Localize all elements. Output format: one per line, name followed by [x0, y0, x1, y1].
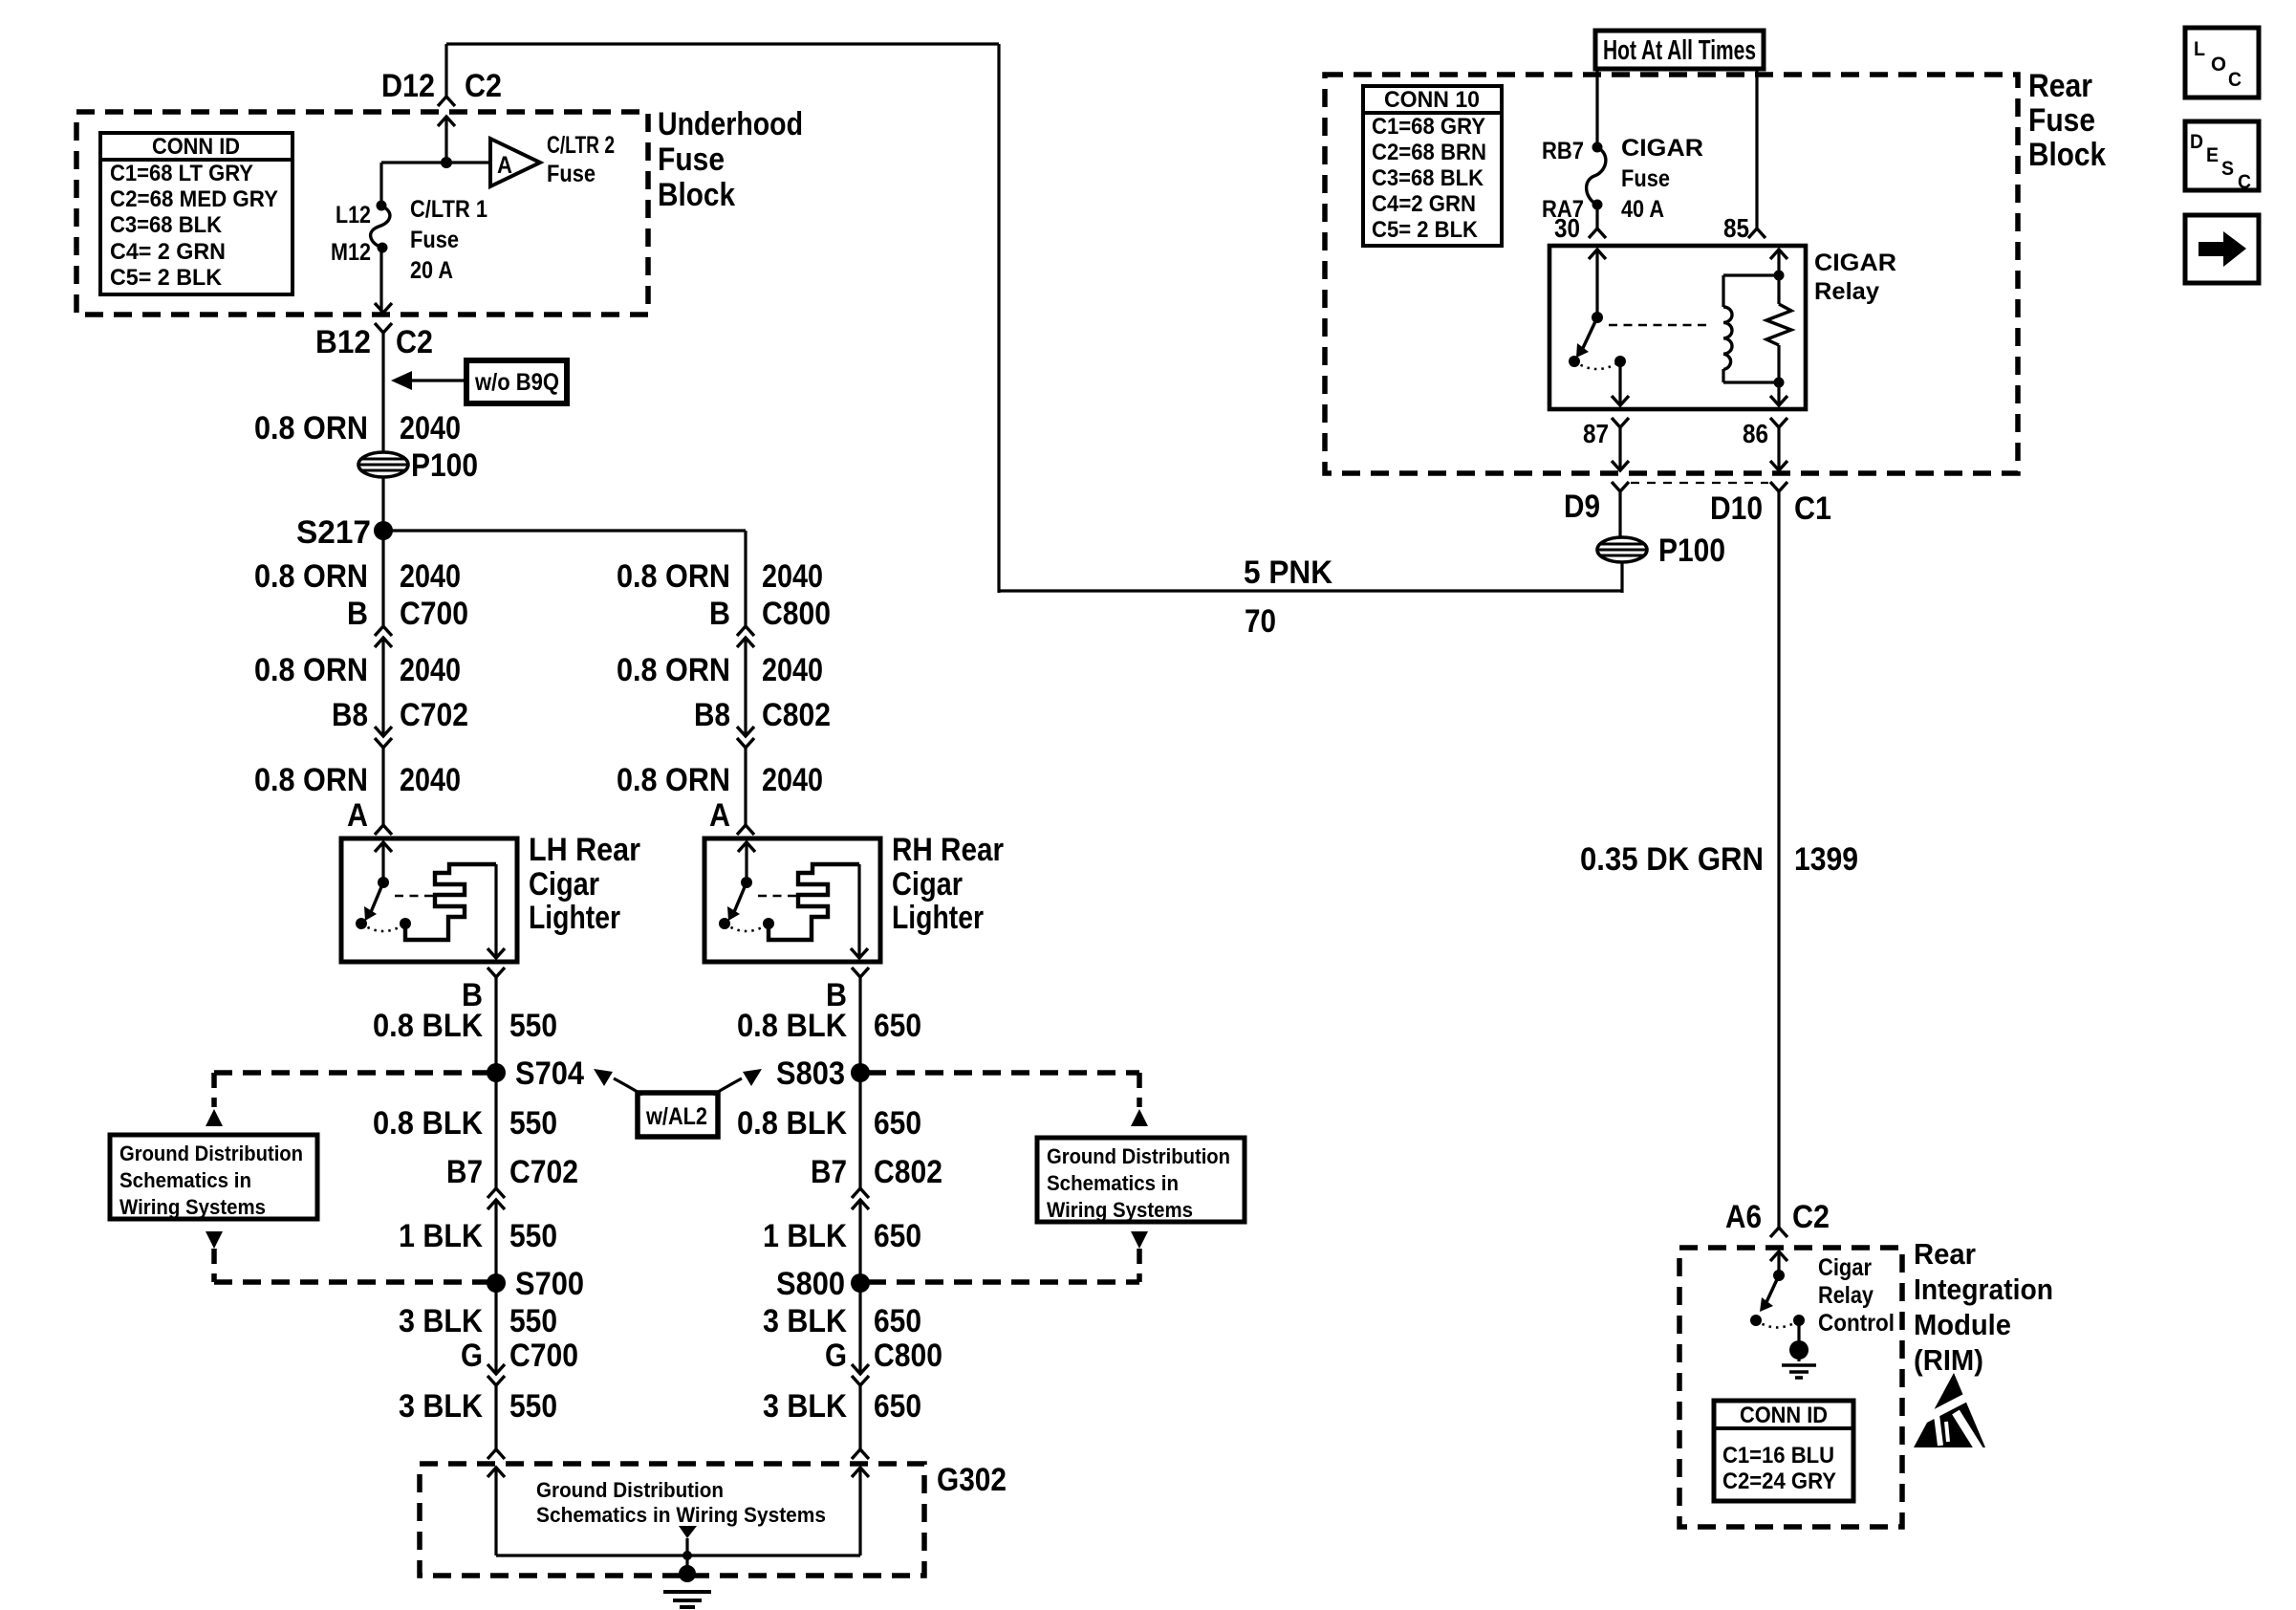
- relay coil top lead: [1723, 273, 1779, 276]
- svg-text:3 BLK: 3 BLK: [763, 1388, 847, 1425]
- svg-text:B12: B12: [315, 324, 371, 360]
- cigar lighter RH box: [704, 838, 880, 962]
- ground symbol G302: [685, 1556, 688, 1570]
- connector dashed link D9 D10: [1631, 482, 1768, 484]
- cigar lighter LH heater element: [405, 864, 496, 940]
- wire S700 to connector G: [494, 1283, 497, 1374]
- fuse C/LTR 1 terminal L12 dot: [377, 201, 387, 211]
- wire P100 to S217: [381, 477, 384, 531]
- connector pin A chevron LH: [375, 825, 392, 835]
- callout w/o B9Q box: [466, 360, 567, 403]
- wire inside G302 S800: [858, 1468, 861, 1556]
- fuse CIGAR element: [1587, 147, 1606, 205]
- wire 5 PNK riser vertical: [997, 44, 1000, 593]
- svg-text:B: B: [709, 596, 730, 632]
- cigar lighter LH element contact dot: [400, 918, 411, 929]
- legend box DESC: [2185, 121, 2259, 190]
- svg-text:P100: P100: [1658, 533, 1725, 569]
- svg-text:Fuse: Fuse: [2028, 102, 2095, 139]
- svg-text:C1=68 GRY: C1=68 GRY: [1372, 114, 1485, 140]
- svg-text:C3=68 BLK: C3=68 BLK: [1372, 165, 1484, 191]
- relay pin 86 arrow at bottom: [1770, 396, 1787, 405]
- svg-text:85: 85: [1723, 213, 1749, 243]
- ground distribution dashed right edge: [1137, 1073, 1142, 1107]
- svg-text:650: 650: [874, 1303, 921, 1339]
- svg-text:w/AL2: w/AL2: [645, 1103, 707, 1130]
- svg-text:1 BLK: 1 BLK: [763, 1218, 847, 1254]
- relay junction dot top: [1774, 271, 1785, 281]
- svg-text:Ground Distribution: Ground Distribution: [536, 1478, 724, 1502]
- relay resistor zigzag: [1766, 304, 1791, 345]
- svg-text:C800: C800: [874, 1338, 942, 1374]
- cigar lighter RH switch dashed link: [758, 895, 797, 898]
- splice S704 dot: [487, 1063, 506, 1082]
- wire RH between C800 and C802: [744, 638, 747, 736]
- wire S217 branch horizontal: [383, 529, 746, 532]
- svg-text:Schematics in: Schematics in: [119, 1168, 251, 1192]
- svg-text:0.35 DK GRN: 0.35 DK GRN: [1580, 841, 1764, 878]
- conn id table RIM: [1714, 1401, 1853, 1501]
- svg-text:C/LTR 1: C/LTR 1: [410, 196, 487, 223]
- connector D10 arrow at block edge: [1770, 461, 1787, 470]
- cigar lighter RH element contact dot: [763, 918, 774, 929]
- fuse C/LTR 2 triangle symbol A: [490, 139, 540, 186]
- callout w/AL2 box: [638, 1093, 718, 1137]
- svg-text:0.8 ORN: 0.8 ORN: [617, 652, 730, 688]
- connector C2 pin D12 arrow inside box: [438, 117, 455, 126]
- note box ground distribution right: [1037, 1138, 1245, 1222]
- svg-text:L12: L12: [336, 202, 371, 228]
- svg-text:S704: S704: [515, 1055, 584, 1092]
- svg-text:CIGAR: CIGAR: [1621, 135, 1703, 162]
- fuse C/LTR 1 terminal M12 dot: [378, 243, 388, 253]
- splice S217 dot: [374, 521, 393, 540]
- svg-text:C2=68 BRN: C2=68 BRN: [1372, 140, 1486, 165]
- relay actuation dashed line: [1609, 324, 1708, 327]
- svg-text:C: C: [2238, 171, 2251, 193]
- RIM switch arm: [1766, 1275, 1779, 1302]
- wire 1399 from D10 to RIM: [1777, 491, 1780, 1228]
- connector pin B chevron below lighter S803: [852, 968, 869, 977]
- svg-text:Fuse: Fuse: [547, 161, 596, 187]
- svg-text:B8: B8: [332, 697, 368, 733]
- wire pin 86 to block edge: [1777, 427, 1780, 470]
- svg-text:70: 70: [1245, 603, 1276, 640]
- underhood fuse block dashed box: [76, 112, 648, 315]
- ground distribution dashed top right: [868, 1070, 1139, 1076]
- connector C2 pin A6 arrow inside RIM: [1770, 1251, 1787, 1261]
- connector C700 pin G chevron pair: [487, 1364, 505, 1374]
- svg-text:Ground Distribution: Ground Distribution: [1047, 1144, 1230, 1168]
- svg-text:C2=68 MED GRY: C2=68 MED GRY: [110, 186, 278, 212]
- ground distribution dashed bottom left: [214, 1279, 488, 1285]
- wire G to ground G302: [494, 1385, 497, 1449]
- G302 internal wire right elbow: [687, 1554, 860, 1556]
- svg-text:Cigar: Cigar: [529, 866, 599, 903]
- wire from connector to fuse node: [444, 117, 447, 163]
- cigar lighter RH switch arm: [734, 882, 747, 912]
- cigar lighter RH contact dotted arc: [725, 924, 769, 931]
- svg-text:86: 86: [1743, 419, 1768, 448]
- svg-text:Wiring Systems: Wiring Systems: [1047, 1198, 1193, 1222]
- svg-text:A: A: [497, 152, 512, 179]
- cigar lighter LH contact dotted arc: [361, 924, 405, 931]
- RIM switch contact dot: [1750, 1315, 1762, 1326]
- svg-text:D9: D9: [1564, 489, 1600, 525]
- svg-text:C: C: [2228, 69, 2242, 91]
- cigar lighter LH switch contact dot: [356, 918, 367, 929]
- svg-text:1399: 1399: [1794, 841, 1858, 878]
- svg-text:A6: A6: [1725, 1199, 1762, 1235]
- svg-text:C700: C700: [400, 596, 468, 632]
- svg-text:Fuse: Fuse: [658, 141, 725, 178]
- connector C2 pin B12 arrow at box bottom: [375, 303, 392, 313]
- legend box LOC: [2185, 28, 2259, 98]
- arrow into G302 S800: [852, 1468, 869, 1477]
- fuse C/LTR 1 element: [371, 206, 390, 248]
- svg-text:Cigar: Cigar: [1818, 1254, 1872, 1281]
- svg-text:Relay: Relay: [1814, 278, 1879, 305]
- RIM switch pivot dot: [1773, 1270, 1785, 1281]
- wire S800 to connector G: [858, 1283, 861, 1374]
- svg-text:Cigar: Cigar: [892, 866, 963, 903]
- svg-text:C2: C2: [1792, 1199, 1830, 1235]
- RIM switch wire: [1777, 1251, 1780, 1275]
- svg-text:0.8 BLK: 0.8 BLK: [373, 1105, 483, 1142]
- svg-text:0.8 ORN: 0.8 ORN: [254, 762, 368, 798]
- svg-text:Schematics in Wiring Systems: Schematics in Wiring Systems: [536, 1503, 826, 1527]
- relay CIGAR box: [1549, 246, 1806, 409]
- wire P100 to 5 PNK elbow: [1620, 562, 1623, 593]
- wire S803 to connector B7: [858, 1073, 861, 1188]
- svg-text:B7: B7: [446, 1154, 483, 1190]
- relay resistor bottom lead: [1777, 345, 1780, 396]
- wire inside G302 S700: [494, 1468, 497, 1556]
- connector D10 chevron: [1770, 482, 1787, 491]
- svg-text:C802: C802: [874, 1154, 942, 1190]
- svg-text:C702: C702: [509, 1154, 578, 1190]
- svg-text:C1=16 BLU: C1=16 BLU: [1722, 1443, 1834, 1469]
- wire D9 to P100 right: [1618, 491, 1621, 537]
- wire M12 down to box edge: [379, 248, 382, 313]
- svg-text:2040: 2040: [400, 558, 461, 595]
- svg-text:D12: D12: [381, 68, 435, 104]
- wire fuse feed horizontal: [381, 161, 490, 163]
- relay coil: [1722, 275, 1724, 307]
- rear integration module dashed box: [1679, 1248, 1902, 1527]
- svg-text:2040: 2040: [400, 410, 461, 446]
- svg-text:CONN ID: CONN ID: [1740, 1403, 1828, 1428]
- svg-text:S803: S803: [776, 1055, 845, 1092]
- wire RA7 to relay pin 30: [1595, 205, 1598, 228]
- RIM contact dotted arc: [1756, 1320, 1799, 1328]
- svg-text:Module: Module: [1914, 1308, 2011, 1341]
- connector pin B chevron below lighter S704: [487, 968, 505, 977]
- reference triangle up right: [1131, 1109, 1148, 1126]
- svg-text:550: 550: [509, 1105, 557, 1142]
- splice S800 dot: [851, 1273, 870, 1293]
- svg-text:2040: 2040: [762, 762, 823, 798]
- arrow into G302 S700: [487, 1468, 505, 1477]
- ground distribution dashed top left: [214, 1070, 488, 1076]
- svg-text:0.8 ORN: 0.8 ORN: [254, 558, 368, 595]
- svg-text:5 PNK: 5 PNK: [1244, 555, 1332, 591]
- svg-text:B: B: [347, 596, 368, 632]
- G302 junction dot: [682, 1551, 692, 1560]
- svg-text:Underhood: Underhood: [658, 106, 803, 142]
- cigar lighter RH heater element: [769, 864, 859, 940]
- connector C2 pin D12 chevron: [438, 97, 455, 106]
- svg-text:550: 550: [509, 1008, 557, 1044]
- callout arrow to S704: [614, 1078, 642, 1095]
- relay resistor top lead: [1777, 250, 1780, 304]
- relay pin 86 chevron below box: [1770, 418, 1787, 427]
- connector D9 arrow at block edge: [1612, 461, 1629, 470]
- svg-text:C/LTR 2: C/LTR 2: [547, 132, 615, 159]
- splice S700 dot: [487, 1273, 506, 1293]
- connector C802 pin B7 chevron pair: [852, 1188, 869, 1198]
- svg-text:0.8 BLK: 0.8 BLK: [737, 1105, 847, 1142]
- svg-text:B7: B7: [811, 1154, 847, 1190]
- wire B7 to splice S700: [494, 1200, 497, 1283]
- cigar lighter RH switch contact dot: [719, 918, 730, 929]
- svg-text:0.8 BLK: 0.8 BLK: [373, 1008, 483, 1044]
- wire LH between C700 and C702: [381, 638, 384, 736]
- svg-text:C1: C1: [1794, 490, 1831, 527]
- svg-text:C5= 2 BLK: C5= 2 BLK: [1372, 217, 1479, 243]
- connector D9 chevron: [1612, 482, 1629, 491]
- svg-text:2040: 2040: [400, 762, 461, 798]
- svg-text:C2: C2: [396, 324, 433, 360]
- node junction dot at fuse feed: [441, 157, 452, 168]
- svg-text:LH Rear: LH Rear: [529, 832, 640, 868]
- svg-text:S800: S800: [776, 1266, 845, 1302]
- relay switch NO contact dot: [1569, 356, 1580, 367]
- callout arrow to wire: [411, 379, 466, 381]
- svg-text:3 BLK: 3 BLK: [399, 1388, 483, 1425]
- cigar lighter LH pin B internal wire: [494, 864, 497, 958]
- G302 internal wire left elbow: [496, 1554, 687, 1556]
- relay pin 87 wire: [1618, 361, 1621, 405]
- connector C702 pin B7 chevron pair: [487, 1188, 505, 1198]
- svg-text:Fuse: Fuse: [1621, 165, 1670, 192]
- reference triangle down left: [206, 1231, 223, 1249]
- svg-text:D10: D10: [1710, 490, 1763, 527]
- fuse CIGAR terminal RA7 dot: [1592, 200, 1603, 210]
- svg-text:Wiring Systems: Wiring Systems: [119, 1195, 266, 1219]
- svg-text:S700: S700: [515, 1266, 584, 1302]
- wire S704 to connector B7: [494, 1073, 497, 1188]
- ground symbol RIM: [1789, 1340, 1809, 1360]
- fuse CIGAR terminal RB7 dot: [1592, 142, 1603, 153]
- svg-text:C3=68 BLK: C3=68 BLK: [110, 212, 223, 238]
- svg-text:Control: Control: [1818, 1310, 1895, 1337]
- cigar lighter LH switch arm: [371, 882, 383, 912]
- svg-text:RH Rear: RH Rear: [892, 832, 1004, 868]
- relay pin 30 chevron: [1589, 228, 1606, 238]
- wire right branch drop: [744, 531, 747, 626]
- wire LH to cigar lighter pin A: [381, 748, 384, 825]
- svg-text:w/o B9Q: w/o B9Q: [474, 369, 559, 396]
- cigar lighter LH box: [341, 838, 517, 962]
- wire lighter B to splice S704: [494, 977, 497, 1073]
- wire hot feed to relay pin 85: [1755, 69, 1758, 228]
- svg-text:C4=2 GRN: C4=2 GRN: [1372, 191, 1476, 217]
- svg-text:Block: Block: [658, 177, 735, 213]
- svg-text:C702: C702: [400, 697, 468, 733]
- ground distribution dashed left edge: [211, 1073, 217, 1107]
- callout arrow to S803: [713, 1078, 742, 1095]
- RIM output contact dot: [1793, 1315, 1805, 1326]
- RIM ground wire: [1797, 1320, 1800, 1342]
- relay switch arm: [1583, 317, 1597, 348]
- svg-text:Lighter: Lighter: [529, 900, 620, 936]
- cigar lighter LH switch pivot dot: [378, 877, 389, 888]
- relay pin 85 arrow inside: [1770, 250, 1787, 259]
- wire down to C/LTR 1 fuse: [379, 163, 382, 206]
- svg-text:30: 30: [1554, 213, 1580, 243]
- svg-text:C700: C700: [509, 1338, 578, 1374]
- svg-text:Schematics in: Schematics in: [1047, 1171, 1179, 1195]
- connector C2 pin B12 chevron below box: [375, 323, 392, 333]
- svg-text:C4= 2 GRN: C4= 2 GRN: [110, 239, 226, 265]
- connector pin A chevron RH: [737, 825, 754, 835]
- svg-text:2040: 2040: [400, 652, 461, 688]
- svg-text:Relay: Relay: [1818, 1282, 1874, 1309]
- connector C2 pin A6 chevron: [1770, 1228, 1787, 1237]
- svg-text:S: S: [2221, 158, 2234, 180]
- relay switch common wire: [1595, 250, 1598, 317]
- connector chevron at G302 S800: [852, 1449, 869, 1459]
- svg-text:C2=24 GRY: C2=24 GRY: [1722, 1469, 1836, 1494]
- relay pin 30 arrow inside: [1589, 250, 1606, 259]
- cigar lighter RH pin B arrow: [851, 948, 868, 958]
- reference triangle down right: [1131, 1231, 1148, 1249]
- wire D12 C2 drop into Underhood Fuse Block: [444, 44, 447, 97]
- relay output contact dot: [1614, 356, 1626, 367]
- wire RH to cigar lighter pin A: [744, 748, 747, 825]
- svg-text:20 A: 20 A: [410, 257, 453, 284]
- svg-text:RB7: RB7: [1542, 138, 1584, 164]
- esd sensitivity symbol: [1914, 1373, 1985, 1447]
- svg-text:Rear: Rear: [1914, 1237, 1976, 1271]
- svg-text:550: 550: [509, 1218, 557, 1254]
- pass-through grommet P100 left: [358, 452, 408, 477]
- wire hot feed to CIGAR fuse: [1595, 69, 1598, 147]
- svg-text:Fuse: Fuse: [410, 227, 459, 253]
- wire LH branch S217 to connector B: [381, 531, 384, 626]
- note box ground distribution left: [110, 1135, 317, 1219]
- pass-through grommet P100 right: [1597, 537, 1647, 562]
- svg-text:0.8 ORN: 0.8 ORN: [254, 652, 368, 688]
- svg-text:650: 650: [874, 1105, 921, 1142]
- svg-text:0.8 ORN: 0.8 ORN: [617, 762, 730, 798]
- wire B7 to splice S800: [858, 1200, 861, 1283]
- reference triangle up left: [206, 1109, 223, 1126]
- relay coil bottom lead: [1723, 381, 1779, 383]
- svg-text:0.8 BLK: 0.8 BLK: [737, 1008, 847, 1044]
- ground block G302 dashed box: [420, 1464, 924, 1576]
- ground distribution dashed bottom right: [868, 1279, 1139, 1285]
- svg-text:650: 650: [874, 1218, 921, 1254]
- legend box arrow: [2185, 215, 2259, 283]
- wire pin 87 to block edge: [1618, 427, 1621, 470]
- svg-text:(RIM): (RIM): [1914, 1343, 1983, 1377]
- svg-text:M12: M12: [331, 239, 371, 266]
- svg-text:G302: G302: [937, 1462, 1007, 1498]
- relay pin 85 chevron: [1748, 228, 1765, 238]
- connector chevron at G302 S700: [487, 1449, 505, 1459]
- svg-text:P100: P100: [411, 447, 478, 484]
- svg-text:CONN ID: CONN ID: [152, 134, 240, 160]
- svg-text:Rear: Rear: [2028, 68, 2092, 104]
- reference triangle down to ground: [679, 1526, 697, 1538]
- svg-text:C1=68 LT GRY: C1=68 LT GRY: [110, 161, 253, 186]
- svg-text:L: L: [2194, 38, 2205, 60]
- svg-text:Lighter: Lighter: [892, 900, 984, 936]
- svg-text:C802: C802: [762, 697, 831, 733]
- wire B12 to P100 label row: [381, 333, 384, 452]
- relay pin 87 chevron below box: [1612, 418, 1629, 427]
- svg-text:Integration: Integration: [1914, 1273, 2053, 1306]
- svg-text:S217: S217: [296, 514, 371, 551]
- svg-text:1 BLK: 1 BLK: [399, 1218, 483, 1254]
- connector C800 pin G chevron pair: [852, 1364, 869, 1374]
- svg-text:2040: 2040: [762, 652, 823, 688]
- svg-text:CIGAR: CIGAR: [1814, 250, 1896, 276]
- relay pin 87 arrow at bottom: [1612, 396, 1629, 405]
- cigar lighter RH pin A internal wire: [745, 842, 747, 882]
- svg-text:0.8 ORN: 0.8 ORN: [617, 558, 730, 595]
- relay junction dot bottom: [1774, 378, 1785, 388]
- svg-text:G: G: [461, 1338, 483, 1374]
- svg-text:2040: 2040: [762, 558, 823, 595]
- svg-text:D: D: [2190, 131, 2203, 153]
- svg-text:550: 550: [509, 1388, 557, 1425]
- connector C700 pin B chevron pair: [375, 626, 392, 636]
- svg-text:Block: Block: [2028, 137, 2106, 173]
- svg-text:O: O: [2211, 54, 2226, 76]
- wire G to ground G302: [858, 1385, 861, 1449]
- cigar lighter RH pin A arrow inside: [738, 842, 755, 852]
- wire lighter B to splice S803: [858, 977, 861, 1073]
- relay contact dotted arc: [1574, 361, 1620, 369]
- relay switch pivot dot: [1592, 312, 1603, 323]
- connector C802 pin B8 chevron pair: [737, 727, 754, 736]
- rear fuse block dashed box: [1325, 75, 2018, 473]
- svg-text:3 BLK: 3 BLK: [399, 1303, 483, 1339]
- cigar lighter LH switch dashed link: [395, 895, 434, 898]
- connector C800 pin B chevron pair: [737, 626, 754, 636]
- svg-text:0.8 ORN: 0.8 ORN: [254, 410, 368, 446]
- cigar lighter LH pin A internal wire: [381, 842, 384, 882]
- cigar lighter RH pin B internal wire: [857, 864, 860, 958]
- cigar lighter LH pin B arrow: [487, 948, 505, 958]
- power label box Hot At All Times: [1595, 31, 1764, 69]
- conn 10 table: [1363, 86, 1502, 246]
- cigar lighter LH pin A arrow inside: [375, 842, 392, 852]
- wire 5 PNK horizontal to P100: [999, 589, 1622, 592]
- connector C702 pin B8 chevron pair: [375, 727, 392, 736]
- svg-text:C800: C800: [762, 596, 831, 632]
- svg-text:Hot At All Times: Hot At All Times: [1603, 35, 1756, 66]
- svg-text:B8: B8: [694, 697, 730, 733]
- svg-text:A: A: [709, 797, 730, 834]
- splice S803 dot: [851, 1063, 870, 1082]
- svg-text:550: 550: [509, 1303, 557, 1339]
- svg-text:Ground Distribution: Ground Distribution: [119, 1142, 303, 1165]
- svg-text:650: 650: [874, 1388, 921, 1425]
